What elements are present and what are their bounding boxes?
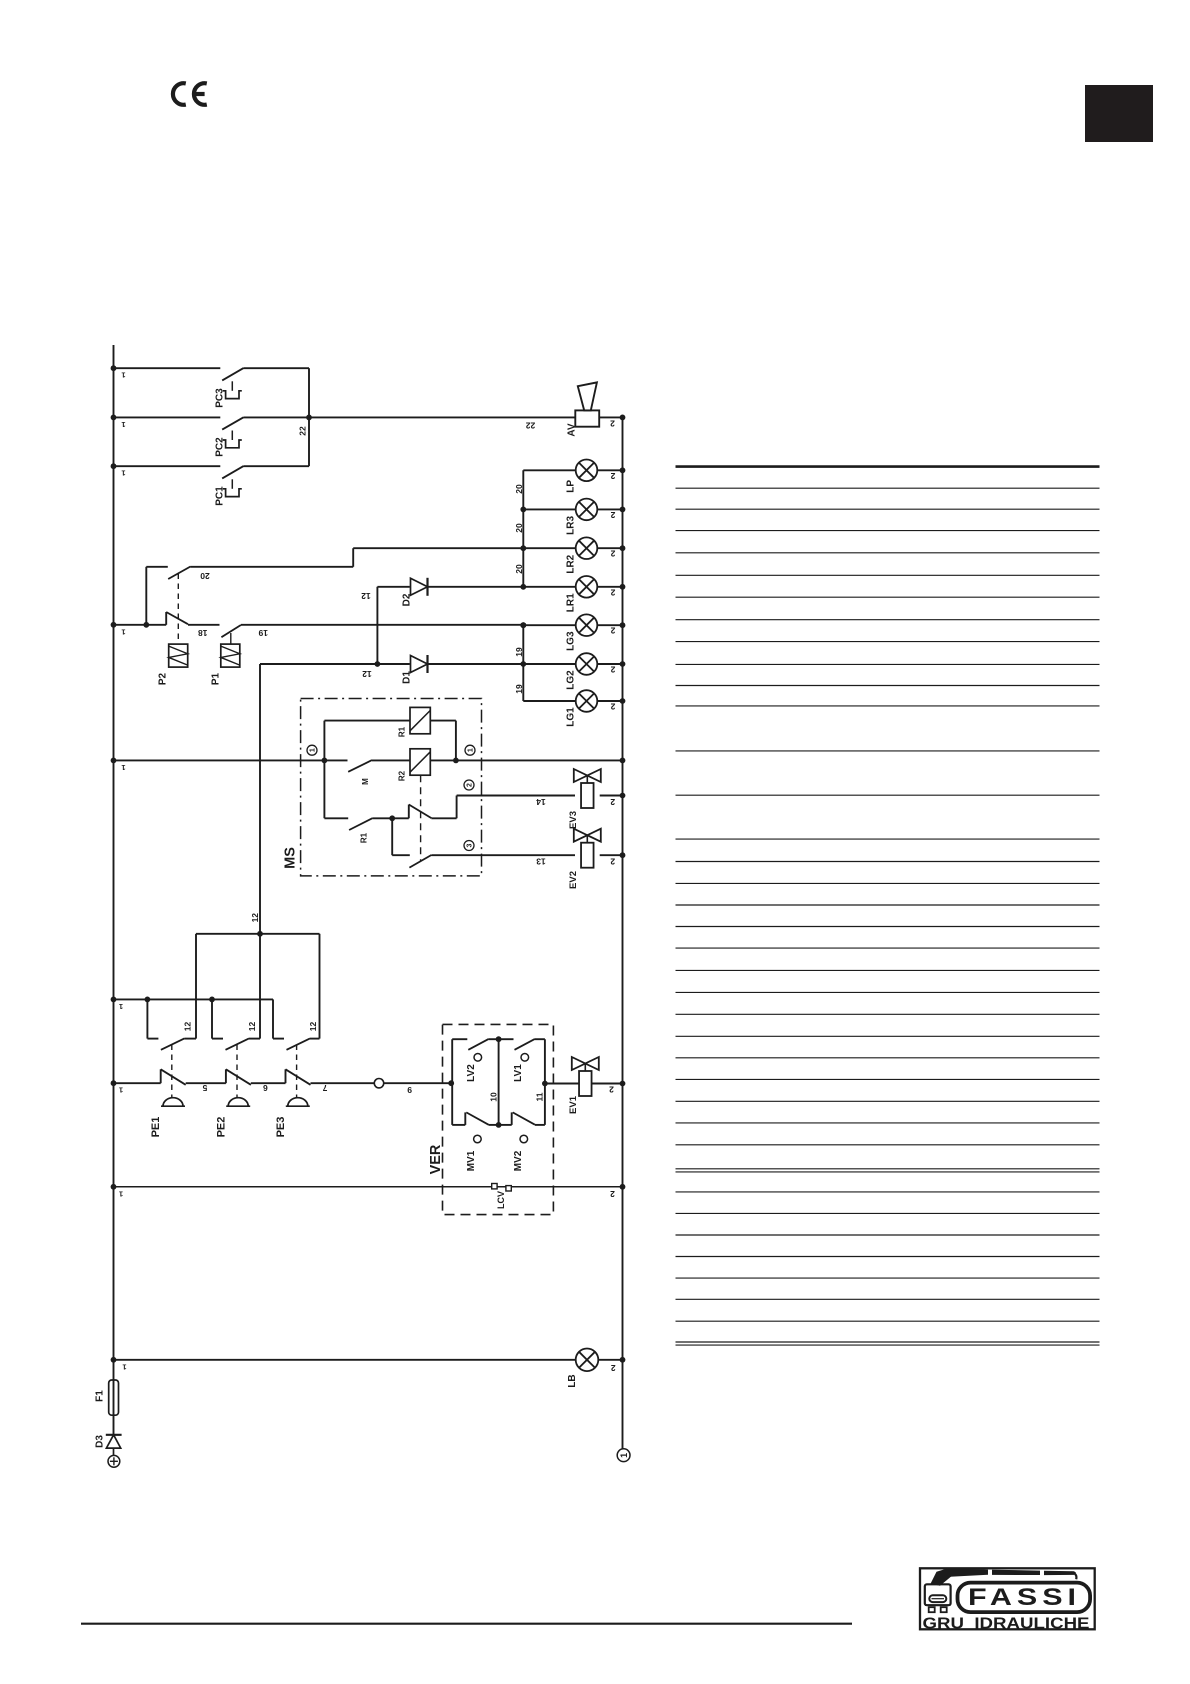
wire rail PE main (111, 1080, 161, 1094)
svg-text:2: 2 (611, 1363, 616, 1373)
svg-text:1: 1 (119, 1189, 123, 1198)
label 19 net (514, 647, 524, 657)
lamp LR3 (523, 499, 625, 521)
wire R1 coil to node (430, 721, 456, 761)
horn AV (575, 382, 599, 426)
svg-text:PE3: PE3 (275, 1117, 287, 1138)
svg-text:10: 10 (489, 1092, 499, 1102)
label 12 contact PE2 (247, 1022, 257, 1032)
solenoid valve EV1 (572, 1057, 599, 1096)
wire connector to VER (384, 1080, 454, 1086)
wire MS to EV2 (482, 854, 576, 856)
svg-text:20: 20 (514, 484, 524, 494)
label 11 net (535, 1092, 545, 1101)
svg-text:13: 13 (536, 857, 546, 867)
svg-text:R1: R1 (360, 832, 369, 843)
label P1 (211, 672, 222, 685)
svg-text:D2: D2 (402, 593, 413, 606)
wire R1 coil loop (324, 721, 410, 819)
CE mark (173, 83, 207, 105)
label 19 net b (514, 684, 524, 694)
svg-text:2: 2 (610, 626, 615, 636)
svg-text:22: 22 (298, 426, 308, 436)
label 6 terminal (263, 1083, 268, 1093)
svg-text:P2: P2 (158, 672, 169, 685)
wire PE feeder rail (196, 931, 320, 937)
wire VER left bar (451, 1039, 453, 1125)
label LG1 (566, 707, 577, 727)
switch M (348, 760, 410, 772)
svg-text:20: 20 (514, 564, 524, 574)
link P1 stub (230, 633, 232, 644)
svg-text:VER: VER (428, 1144, 444, 1174)
pedal PE2 (226, 1098, 250, 1107)
link P2 mechanical (177, 574, 179, 645)
switch contact to node 2 (409, 796, 482, 819)
svg-text:1: 1 (121, 627, 125, 636)
label 2 at EV2 (610, 857, 615, 867)
wire rail 1 to PC2 (114, 416, 221, 418)
label 18 contact P2 (198, 628, 208, 638)
wire PC2 to AV (309, 416, 575, 418)
lamp LG2 (523, 653, 625, 675)
svg-text:1: 1 (121, 469, 125, 478)
svg-text:1: 1 (119, 1002, 123, 1011)
label LP (566, 480, 577, 493)
label PE1 (150, 1117, 162, 1138)
supply positive terminal (108, 1448, 120, 1467)
label MV2 (513, 1150, 524, 1171)
svg-text:20: 20 (514, 523, 524, 533)
wire AV to right bus (599, 415, 625, 421)
svg-text:19: 19 (514, 684, 524, 694)
wire rail 1 to PC3 (114, 367, 221, 369)
wire net 12 vertical upper (375, 587, 381, 667)
svg-text:3: 3 (467, 843, 474, 847)
switch P2 (166, 612, 219, 625)
bottom rule (81, 1623, 852, 1625)
label AV (567, 423, 578, 436)
legend rule lines (676, 467, 1100, 1346)
svg-text:2: 2 (610, 1189, 615, 1199)
svg-text:EV2: EV2 (568, 871, 579, 889)
label D2 (402, 593, 413, 606)
wire rail PE upper (111, 997, 273, 1011)
switch P1 (221, 625, 523, 637)
label 12 at D1 (362, 669, 372, 679)
label 2 at LP (610, 471, 615, 481)
svg-text:LR1: LR1 (566, 593, 577, 612)
label EV1 (568, 1095, 579, 1114)
label PE3 (275, 1117, 287, 1138)
svg-text:LB: LB (567, 1374, 578, 1387)
solenoid valve EV2 (574, 829, 601, 868)
label PC2 (215, 437, 226, 457)
svg-text:AV: AV (567, 423, 578, 436)
label LG2 (566, 670, 577, 690)
svg-text:1: 1 (619, 1453, 629, 1458)
node 22 junction PC2 (298, 415, 312, 436)
svg-text:2: 2 (467, 783, 474, 787)
label 2 at LG2 (610, 665, 615, 675)
svg-text:2: 2 (610, 857, 615, 867)
label 20 net c (514, 564, 524, 574)
wire PE feeder drop 1 (195, 934, 197, 1039)
label PC3 (215, 388, 226, 408)
label M contact (361, 778, 370, 785)
svg-text:LG2: LG2 (566, 670, 577, 690)
label 12 contact PE3 (308, 1022, 318, 1032)
svg-text:1: 1 (122, 1362, 126, 1371)
svg-text:LG1: LG1 (566, 707, 577, 727)
svg-text:12: 12 (182, 1022, 192, 1032)
wire bus to fuse (113, 1360, 115, 1380)
label 9 net (407, 1085, 412, 1095)
diode D3 (106, 1435, 122, 1448)
label MS (283, 847, 299, 869)
svg-text:GRU IDRAULICHE: GRU IDRAULICHE (923, 1616, 1090, 1633)
wire VER center bar (496, 1036, 502, 1128)
node 1 label rail PC3 (111, 365, 126, 379)
wire R2 to MS exit (430, 758, 481, 764)
link PE2 mechanical (236, 1045, 238, 1098)
svg-text:LR3: LR3 (566, 516, 577, 535)
label MV1 (466, 1150, 477, 1171)
lamp LG1 (523, 690, 625, 712)
pedal PE1 (161, 1098, 185, 1107)
coil P1 (221, 644, 240, 667)
svg-text:MS: MS (283, 847, 299, 869)
svg-text:12: 12 (247, 1022, 257, 1032)
label 2 at LR3 (610, 510, 615, 520)
label P2 (158, 672, 169, 685)
box MS dashed (301, 699, 482, 876)
lamp LR2 (523, 537, 625, 559)
label 13 (536, 857, 546, 867)
switch PE3 (286, 1069, 311, 1085)
fuse F1 (109, 1380, 119, 1415)
label LR1 (566, 593, 577, 612)
label LR2 (566, 554, 577, 573)
wire O2 to lamp bus LR2 (191, 548, 524, 567)
switch MV1 (452, 1112, 498, 1142)
svg-text:LCV: LCV (496, 1191, 506, 1209)
wire PE1 to PE2 (186, 1082, 226, 1084)
svg-text:R1: R1 (398, 726, 407, 737)
wire rail 1 to PC1 (114, 465, 221, 467)
label 2 at EV1 (609, 1085, 614, 1095)
svg-text:MV1: MV1 (466, 1150, 477, 1171)
label 20 contact O2 (200, 571, 210, 581)
label EV2 (568, 871, 579, 889)
svg-text:R2: R2 (398, 770, 407, 781)
svg-text:1: 1 (310, 748, 317, 752)
link PE3 mechanical (296, 1045, 298, 1098)
switch PE2 upper contact (212, 999, 260, 1049)
link PE1 mechanical (171, 1045, 173, 1098)
pedal PE3 (286, 1098, 310, 1107)
label 10 net (489, 1092, 499, 1102)
connector LCV (492, 1184, 512, 1192)
switch PC3 (222, 368, 309, 399)
label 2 at LG3 (610, 626, 615, 636)
wire rail LB (111, 1357, 576, 1371)
black index box (1085, 85, 1153, 142)
svg-text:19: 19 (258, 628, 268, 638)
label LV2 (466, 1064, 477, 1082)
label VER (428, 1144, 444, 1174)
node 1 label rail PC1 (111, 463, 126, 477)
label 20 net (514, 484, 524, 494)
wire lamp feed bus 20 (520, 470, 526, 589)
svg-text:2: 2 (610, 419, 615, 429)
switch R1 contact (324, 815, 408, 830)
svg-text:5: 5 (202, 1083, 207, 1093)
svg-text:1: 1 (121, 763, 125, 772)
svg-text:2: 2 (610, 510, 615, 520)
svg-text:2: 2 (610, 549, 615, 559)
wire PE2 to PE3 (251, 1082, 286, 1084)
label R1 coil (398, 726, 407, 737)
label 2 at AV (610, 419, 615, 429)
relay coil R2 (410, 749, 430, 775)
wire contact3 branch (392, 818, 410, 855)
svg-text:EV1: EV1 (568, 1095, 579, 1114)
switch PE2 (226, 1069, 251, 1085)
switch MV2 (499, 1112, 545, 1142)
box VER dashed (443, 1024, 554, 1214)
lamp LB (576, 1349, 626, 1372)
label 19 contact P1 (258, 628, 268, 638)
wire rail MS (111, 758, 348, 772)
label LV1 (513, 1064, 524, 1082)
svg-text:P1: P1 (211, 672, 222, 685)
wire lamp feed bus 19 (520, 622, 526, 701)
label PC1 (215, 486, 226, 506)
node circled 3 (464, 841, 474, 851)
switch O2 (168, 567, 190, 580)
label 2 at LR1 (610, 587, 615, 597)
svg-text:1: 1 (121, 420, 125, 429)
svg-text:1: 1 (121, 371, 125, 380)
svg-text:19: 19 (514, 647, 524, 657)
wire fuse to diode (113, 1415, 115, 1435)
wire O2 branch riser (143, 567, 167, 628)
wire rail LCV (111, 1184, 626, 1198)
wire EV2 to bus (600, 852, 626, 858)
wire PE feeder drop 2 (259, 934, 261, 1039)
node circled 2 (464, 780, 474, 790)
label 2 at LG1 (610, 702, 615, 712)
svg-text:14: 14 (536, 797, 546, 807)
wire VER right bar (542, 1039, 548, 1125)
wire MS to right bus (482, 758, 626, 764)
svg-text:2: 2 (610, 471, 615, 481)
svg-text:12: 12 (361, 591, 371, 601)
wire rail P to bus (111, 622, 167, 636)
switch LV2 (452, 1039, 498, 1061)
lamp LP (523, 460, 625, 482)
switch PE1 (161, 1069, 186, 1085)
svg-text:6: 6 (263, 1083, 268, 1093)
svg-text:22: 22 (526, 421, 536, 431)
wire left bus (113, 345, 115, 1360)
label LB (567, 1374, 578, 1387)
svg-text:11: 11 (535, 1092, 545, 1101)
solenoid valve EV3 (574, 769, 601, 808)
diode D1 (260, 655, 523, 673)
wire VER out to EV1 (545, 1083, 579, 1085)
svg-text:1: 1 (468, 748, 475, 752)
label 12 net feeder (250, 913, 260, 923)
switch PE1 upper contact (147, 999, 196, 1049)
svg-text:1: 1 (119, 1086, 123, 1095)
svg-text:EV3: EV3 (568, 811, 579, 829)
svg-text:LG3: LG3 (566, 631, 577, 651)
svg-text:2: 2 (610, 702, 615, 712)
wire rail P to LG3 junction (520, 622, 526, 628)
label LG3 (566, 631, 577, 651)
svg-text:F1: F1 (95, 1390, 106, 1402)
switch PC1 (222, 466, 309, 497)
svg-text:LV1: LV1 (513, 1064, 524, 1082)
svg-text:PC1: PC1 (215, 486, 226, 506)
lamp LR1 (523, 576, 625, 598)
wire PE3 to connector (311, 1082, 375, 1084)
wire net 12 vertical to PE feeder (259, 664, 261, 934)
svg-text:LP: LP (566, 480, 577, 493)
svg-text:LV2: LV2 (466, 1064, 477, 1082)
svg-text:MV2: MV2 (513, 1150, 524, 1171)
wire right bus (622, 417, 624, 1448)
svg-text:FASSI: FASSI (968, 1584, 1081, 1611)
lamp LG3 (523, 614, 625, 636)
svg-text:M: M (361, 778, 370, 785)
logo FASSI (920, 1568, 1095, 1632)
label F1 (95, 1390, 106, 1402)
label 12 contact PE1 (182, 1022, 192, 1032)
svg-text:LR2: LR2 (566, 554, 577, 573)
label 2 at EV3 (610, 797, 615, 807)
label LR3 (566, 516, 577, 535)
svg-text:9: 9 (407, 1085, 412, 1095)
label R1 contact (360, 832, 369, 843)
switch LV1 (499, 1039, 545, 1061)
label 22 at AV (526, 421, 536, 431)
diode D2 (377, 578, 523, 596)
svg-text:12: 12 (362, 669, 372, 679)
svg-text:20: 20 (200, 571, 210, 581)
wire PC common bus (308, 368, 310, 466)
svg-text:2: 2 (610, 797, 615, 807)
wire EV1 to bus (592, 1081, 626, 1087)
svg-text:PE1: PE1 (150, 1117, 162, 1138)
node circled 1 right (465, 745, 475, 755)
svg-text:18: 18 (198, 628, 208, 638)
connector circle node 6 (374, 1079, 383, 1088)
label 5 terminal (202, 1083, 207, 1093)
svg-text:PC3: PC3 (215, 388, 226, 408)
svg-text:PE2: PE2 (215, 1117, 227, 1138)
label 7 terminal (322, 1083, 327, 1093)
switch contact to node 3 (409, 855, 481, 868)
label 2 at LR2 (610, 549, 615, 559)
svg-text:2: 2 (610, 665, 615, 675)
terminal circled 1 bottom (617, 1449, 630, 1462)
svg-text:D1: D1 (402, 671, 413, 684)
coil P2 (169, 644, 188, 667)
svg-text:2: 2 (609, 1085, 614, 1095)
node circled 1 left (307, 745, 317, 755)
label 12 at D2 (361, 591, 371, 601)
label D1 (402, 671, 413, 684)
wire PE feeder drop 3 (319, 934, 321, 1039)
svg-text:2: 2 (610, 587, 615, 597)
svg-text:D3: D3 (95, 1435, 106, 1448)
relay coil R1 (410, 707, 430, 733)
label D3 (95, 1435, 106, 1448)
svg-text:12: 12 (250, 913, 260, 923)
label R2 coil (398, 770, 407, 781)
label PE2 (215, 1117, 227, 1138)
label EV3 (568, 811, 579, 829)
svg-text:12: 12 (308, 1022, 318, 1032)
svg-text:7: 7 (322, 1083, 327, 1093)
label LCV (496, 1191, 506, 1209)
label 14 (536, 797, 546, 807)
label 2 at LB (611, 1363, 616, 1373)
label 20 net b (514, 523, 524, 533)
wire MS to EV3 (482, 795, 576, 797)
link R2 mechanical (420, 775, 422, 861)
node 1 label rail PC2 (111, 415, 126, 429)
svg-text:PC2: PC2 (215, 437, 226, 457)
switch PE3 upper contact (273, 999, 320, 1049)
wire EV3 to bus (600, 793, 626, 799)
switch PC2 (222, 417, 309, 448)
label 2 at LCV rail (610, 1189, 615, 1199)
